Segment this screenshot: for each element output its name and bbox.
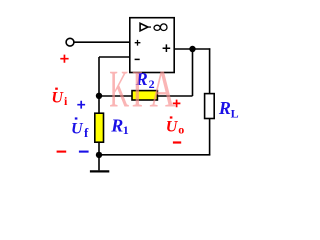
input terminal circle	[66, 38, 74, 46]
wire: node down to R1 top	[98, 96, 100, 114]
op-amp gain symbol triangle	[140, 23, 148, 31]
svg-text:R: R	[218, 98, 231, 118]
op-amp non-inverting input + mark	[135, 40, 141, 46]
wire: right rail lower (RL bottom to bottom row)	[209, 119, 211, 156]
svg-text:U: U	[166, 118, 179, 135]
node: output junction dot	[189, 46, 195, 52]
wire: op-amp output to right rail	[174, 48, 210, 50]
wire: bottom row to right rail	[99, 154, 210, 156]
label R1	[110, 116, 129, 137]
svg-text:f: f	[84, 125, 89, 140]
op-amp infinity symbol	[154, 25, 160, 30]
node: bottom junction dot	[96, 152, 102, 158]
op-amp inverting input - mark	[135, 58, 140, 60]
wire: inverting input down to feedback node	[98, 57, 100, 96]
label Uo	[166, 116, 185, 136]
label Uf	[71, 117, 89, 140]
resistor R2	[132, 91, 157, 100]
svg-text:U: U	[71, 120, 84, 137]
polarity + (blue, Uf top)	[77, 101, 85, 109]
svg-text:A: A	[150, 60, 176, 118]
label Ui	[51, 88, 68, 109]
polarity - (red, bottom left)	[57, 151, 67, 153]
wire: inverting input horizontal	[99, 56, 130, 58]
watermark KIA	[109, 59, 175, 119]
label RL	[218, 98, 239, 120]
op-amp U1 (rectangular amplifier box)	[130, 18, 174, 73]
polarity - (blue, Uf bottom)	[79, 151, 89, 153]
wire: feedback row through R2	[99, 95, 193, 97]
resistor RL	[205, 94, 215, 119]
node: feedback junction dot A	[96, 93, 102, 99]
svg-text:1: 1	[123, 123, 129, 137]
op-amp output + polarity mark	[163, 44, 171, 52]
wire: R1 bottom to ground row	[98, 142, 100, 155]
svg-text:U: U	[51, 89, 64, 106]
polarity + (red, source top)	[60, 55, 68, 63]
wire: right rail upper (output corner down to RL top)	[209, 48, 211, 93]
polarity - (red, Uo bottom)	[173, 141, 181, 143]
ground	[98, 155, 100, 171]
svg-text:L: L	[231, 106, 239, 120]
wire: output down to R2 right	[192, 49, 194, 96]
svg-text:o: o	[178, 123, 184, 137]
svg-text:K: K	[109, 60, 129, 119]
wire: input terminal to + input	[74, 41, 130, 43]
polarity + (red, Uo top)	[173, 100, 181, 108]
svg-text:I: I	[132, 59, 144, 118]
resistor R1	[95, 113, 104, 142]
label R2	[135, 69, 155, 91]
